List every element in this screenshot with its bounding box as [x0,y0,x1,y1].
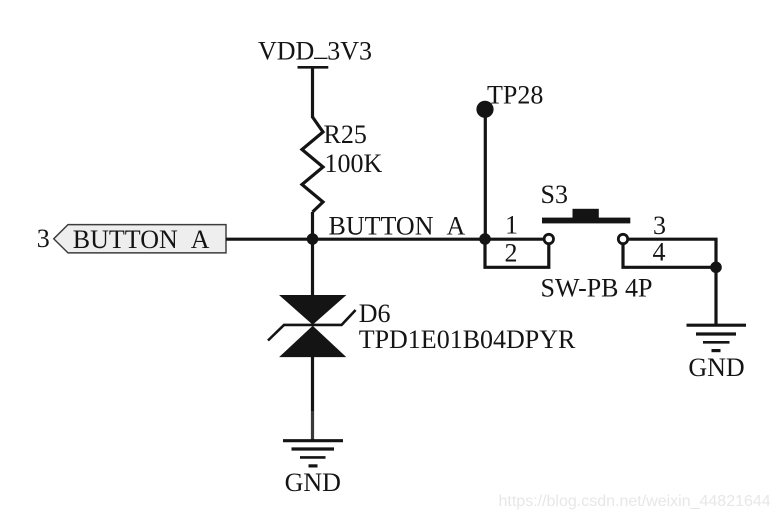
wire port to node (net BUTTON_A) [226,238,544,241]
ground GND (left) [283,441,343,497]
wire VDD to R25 [311,67,314,118]
node junction (TP28 / switch pins 1-2) [479,233,491,245]
svg-text:3: 3 [653,211,666,240]
svg-text:BUTTON_A: BUTTON_A [329,212,466,241]
svg-text:TP28: TP28 [487,81,543,110]
wire switch pin 4 loop [623,244,716,267]
wire R25 to node [311,212,314,241]
svg-text:4: 4 [653,237,666,266]
port BUTTON_A (sheet entry flag) [54,225,226,254]
diode D6 TVS (bidirectional) [268,296,576,357]
wire node to D6 [311,239,314,297]
svg-text:https://blog.csdn.net/weixin_4: https://blog.csdn.net/weixin_44821644 [499,493,771,510]
switch S3 contact pin 3/4 [618,234,627,243]
svg-text:VDD_3V3: VDD_3V3 [258,32,372,65]
wire node to ground [714,267,717,325]
svg-text:D6: D6 [359,299,391,328]
svg-text:R25: R25 [324,120,367,149]
wire switch pin 2 loop [485,239,549,267]
wire switch pin 3 to ground branch [628,239,716,267]
wire D6 to ground [311,356,314,441]
test point TP28 [476,81,543,118]
resistor R25 100K [302,117,383,212]
svg-text:SW-PB 4P: SW-PB 4P [541,274,653,303]
svg-text:100K: 100K [325,149,383,178]
svg-text:GND: GND [688,353,744,382]
switch S3 contact pin 1/2 [544,234,553,243]
svg-text:GND: GND [285,468,341,497]
node junction (pins 3-4 / GND) [710,262,722,274]
svg-text:3: 3 [37,224,50,253]
svg-text:2: 2 [505,238,518,267]
svg-text:1: 1 [505,210,518,239]
watermark overlay on wire [308,411,317,439]
node junction (R25 / port / D6) [307,233,319,245]
svg-text:S3: S3 [541,180,568,209]
wire TP28 to node [484,112,487,241]
svg-text:BUTTON_A: BUTTON_A [73,225,210,254]
power VDD_3V3 [258,32,372,67]
ground GND (right) [687,325,747,382]
svg-text:TPD1E01B04DPYR: TPD1E01B04DPYR [359,325,576,354]
switch S3 actuator bar [542,209,630,224]
